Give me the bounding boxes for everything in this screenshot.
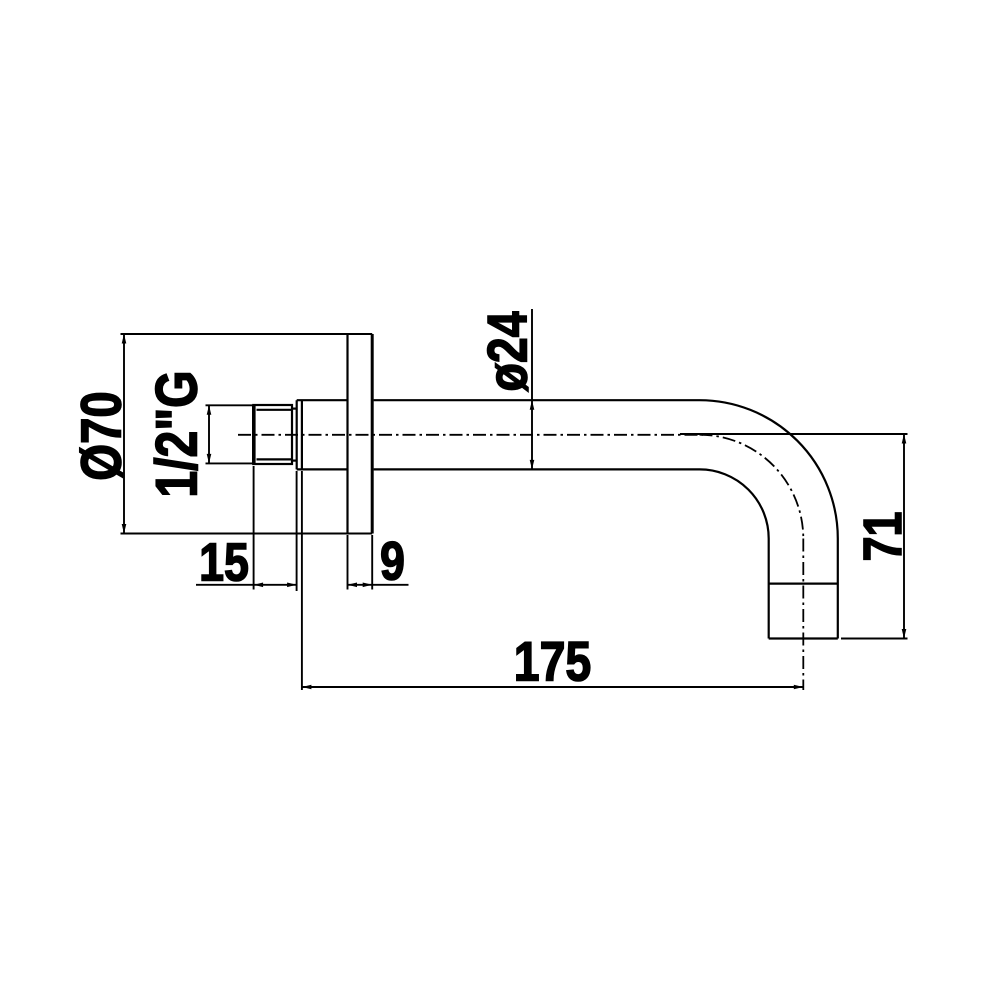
svg-text:9: 9 bbox=[380, 531, 405, 592]
dimension 15 dimension line bbox=[196, 584, 297, 586]
threaded nipple 1/2"G body bbox=[253, 405, 292, 464]
svg-text:Ø70: Ø70 bbox=[70, 391, 133, 480]
horizontal tube left segment bbox=[297, 400, 348, 469]
dimension 9 dimension line bbox=[348, 584, 409, 586]
tube end face ring bbox=[297, 400, 302, 469]
svg-text:175: 175 bbox=[514, 629, 592, 692]
horizontal tube right segment bbox=[374, 400, 700, 469]
svg-text:1/2"G: 1/2"G bbox=[145, 370, 209, 497]
dimension 15 extension lines bbox=[254, 466, 297, 591]
wall flange plate bbox=[348, 334, 373, 534]
dimension 175 dimension line bbox=[302, 686, 803, 688]
centerline: horizontal tube axis (dash-dot) bbox=[238, 434, 703, 436]
dimension Ø70 dimension line bbox=[123, 334, 125, 534]
centerline: vertical outlet axis (dash-dot) bbox=[802, 539, 804, 691]
dimension 1/2"G arrowheads bbox=[207, 405, 212, 463]
dimension 71 dimension line bbox=[903, 434, 905, 639]
dimension 9 extension lines bbox=[348, 535, 373, 590]
vertical outlet tube bbox=[769, 539, 838, 639]
dimension Ø24 leader line bbox=[531, 309, 533, 470]
dimension 71 extension lines bbox=[680, 434, 908, 639]
dimension Ø24 arrowheads bbox=[530, 400, 535, 469]
dimension 15 arrowheads bbox=[254, 583, 297, 588]
svg-text:15: 15 bbox=[199, 532, 249, 593]
svg-text:ø24: ø24 bbox=[475, 311, 538, 391]
dimension 175 arrowheads bbox=[302, 685, 803, 690]
dimension Ø70 arrowheads bbox=[122, 334, 127, 534]
nipple neck collar bbox=[292, 409, 297, 461]
outlet end cap joint line bbox=[769, 582, 838, 584]
bend inner arc bbox=[700, 469, 769, 538]
bend outer arc bbox=[700, 400, 838, 538]
dimension Ø70 extension lines bbox=[121, 334, 373, 534]
dimension 9 arrowheads bbox=[348, 583, 373, 588]
dimension 1/2"G extension lines bbox=[206, 405, 253, 463]
dimension 1/2"G dimension line bbox=[208, 405, 210, 463]
svg-text:71: 71 bbox=[852, 512, 913, 562]
dimension 175 extension line bbox=[301, 471, 303, 690]
centerline: bend arc axis (dash-dot) bbox=[700, 435, 804, 539]
dimension 71 arrowheads bbox=[902, 434, 907, 639]
